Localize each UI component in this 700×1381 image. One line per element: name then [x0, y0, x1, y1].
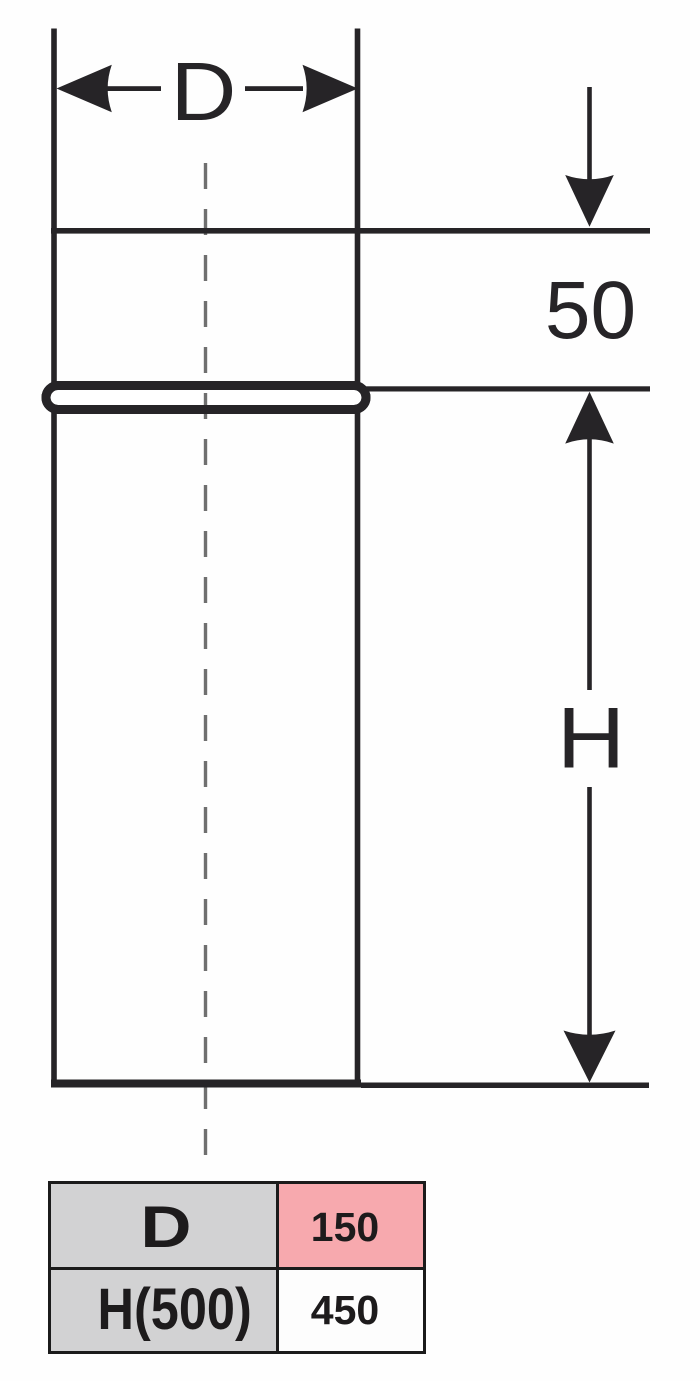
- D dimension right shaft: [245, 86, 303, 91]
- dimension table: [48, 1181, 426, 1354]
- 50 dimension down arrowhead: [565, 175, 614, 227]
- pipe left wall: [51, 29, 57, 1086]
- table cell H(500): [50, 1269, 278, 1353]
- H dimension upper shaft: [587, 438, 592, 690]
- dashed centerline: [204, 163, 207, 1155]
- D dimension left arrowhead: [57, 65, 112, 112]
- svg-text:H: H: [557, 690, 625, 786]
- table cell D: [50, 1183, 278, 1269]
- bottom dimension line extension: [361, 1083, 649, 1089]
- seam line top of 50 section: [51, 228, 650, 234]
- svg-text:D: D: [171, 46, 237, 138]
- pipe right wall: [355, 29, 361, 1086]
- H dimension lower shaft: [587, 787, 592, 1037]
- dimension line at bead level: [365, 386, 650, 391]
- H dimension down arrowhead: [564, 1031, 616, 1083]
- bead collar (fill): [46, 386, 366, 410]
- 50 dimension top shaft: [587, 87, 592, 180]
- pipe bottom edge: [51, 1080, 361, 1088]
- bead collar (stroke overlay): [46, 386, 366, 410]
- H dimension up arrowhead: [565, 392, 614, 444]
- table cell 450: [278, 1269, 425, 1353]
- svg-text:50: 50: [545, 265, 636, 356]
- D dimension left shaft: [104, 86, 161, 91]
- D dimension right arrowhead: [303, 65, 358, 112]
- table cell 150: [278, 1183, 425, 1269]
